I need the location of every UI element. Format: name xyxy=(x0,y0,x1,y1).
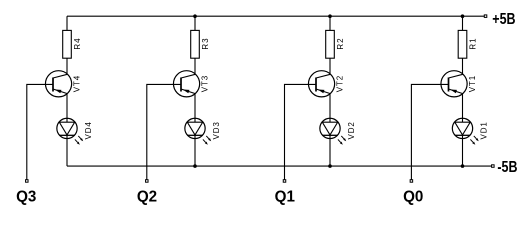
terminal square Q0 xyxy=(410,180,413,183)
wire: +5B top rail xyxy=(67,15,484,17)
svg-text:Q3: Q3 xyxy=(16,188,37,205)
LED VD1 xyxy=(452,118,488,145)
svg-text:VD2: VD2 xyxy=(347,121,356,139)
svg-text:Q0: Q0 xyxy=(403,188,424,205)
svg-text:Q1: Q1 xyxy=(275,188,296,205)
resistor R1 xyxy=(458,30,477,58)
resistor R3 xyxy=(191,30,210,58)
wire: top rail to R4 to VT4 collector xyxy=(66,16,68,74)
terminal square +5B xyxy=(484,15,487,18)
svg-text:R2: R2 xyxy=(336,38,345,50)
wire: Q3 input to VT4 base xyxy=(27,84,53,179)
junction dot: top rail / R1 xyxy=(461,14,465,18)
junction dot: top rail / R3 xyxy=(193,14,197,18)
svg-text:+5B: +5B xyxy=(492,9,515,27)
svg-text:R4: R4 xyxy=(73,38,82,50)
svg-text:VT3: VT3 xyxy=(201,75,210,92)
transistor VT1 xyxy=(441,71,477,97)
junction dot: top rail / R2 xyxy=(328,14,332,18)
LED VD4 xyxy=(57,118,93,145)
svg-text:VT2: VT2 xyxy=(336,75,345,92)
wire: top rail to R3 to VT3 collector xyxy=(194,16,196,74)
svg-text:R3: R3 xyxy=(201,38,210,50)
svg-text:VD3: VD3 xyxy=(212,121,221,139)
terminal square Q2 xyxy=(146,180,149,183)
wire: VD4 cathode to bottom rail xyxy=(66,135,68,166)
wire: VD1 cathode to bottom rail xyxy=(462,135,464,166)
svg-text:VT4: VT4 xyxy=(73,75,82,92)
wire: VT4 emitter to VD4 anode xyxy=(66,94,68,123)
svg-text:-5B: -5B xyxy=(497,157,517,175)
terminal square -5B xyxy=(492,165,495,168)
junction dot: bottom rail / VD2 xyxy=(328,164,332,168)
wire: VD2 cathode to bottom rail xyxy=(329,135,331,166)
junction dot: bottom rail / VD1 xyxy=(461,164,465,168)
LED VD2 xyxy=(320,118,356,145)
wire: -5B bottom rail xyxy=(67,165,491,167)
svg-text:VD1: VD1 xyxy=(480,121,489,139)
transistor VT4 xyxy=(45,71,81,97)
svg-text:VD4: VD4 xyxy=(84,121,93,139)
terminal square Q3 xyxy=(26,180,29,183)
wire: top rail to R1 to VT1 collector xyxy=(462,16,464,74)
svg-text:VT1: VT1 xyxy=(468,75,477,92)
wire: VT1 emitter to VD1 anode xyxy=(462,94,464,123)
junction dot: bottom rail / VD3 xyxy=(193,164,197,168)
wire: VT2 emitter to VD2 anode xyxy=(329,94,331,123)
transistor VT2 xyxy=(308,71,344,97)
wire: Q1 input to VT2 base xyxy=(285,84,317,179)
LED VD3 xyxy=(185,118,221,145)
wire: VD3 cathode to bottom rail xyxy=(194,135,196,166)
wire: top rail to R2 to VT2 collector xyxy=(329,16,331,74)
wire: Q0 input to VT1 base xyxy=(411,84,448,179)
resistor R4 xyxy=(63,30,82,58)
wire: VT3 emitter to VD3 anode xyxy=(194,94,196,123)
terminal square Q1 xyxy=(283,180,286,183)
resistor R2 xyxy=(326,30,345,58)
wire: Q2 input to VT3 base xyxy=(147,84,181,179)
transistor VT3 xyxy=(173,71,209,97)
svg-text:R1: R1 xyxy=(468,38,477,50)
svg-text:Q2: Q2 xyxy=(137,188,158,205)
